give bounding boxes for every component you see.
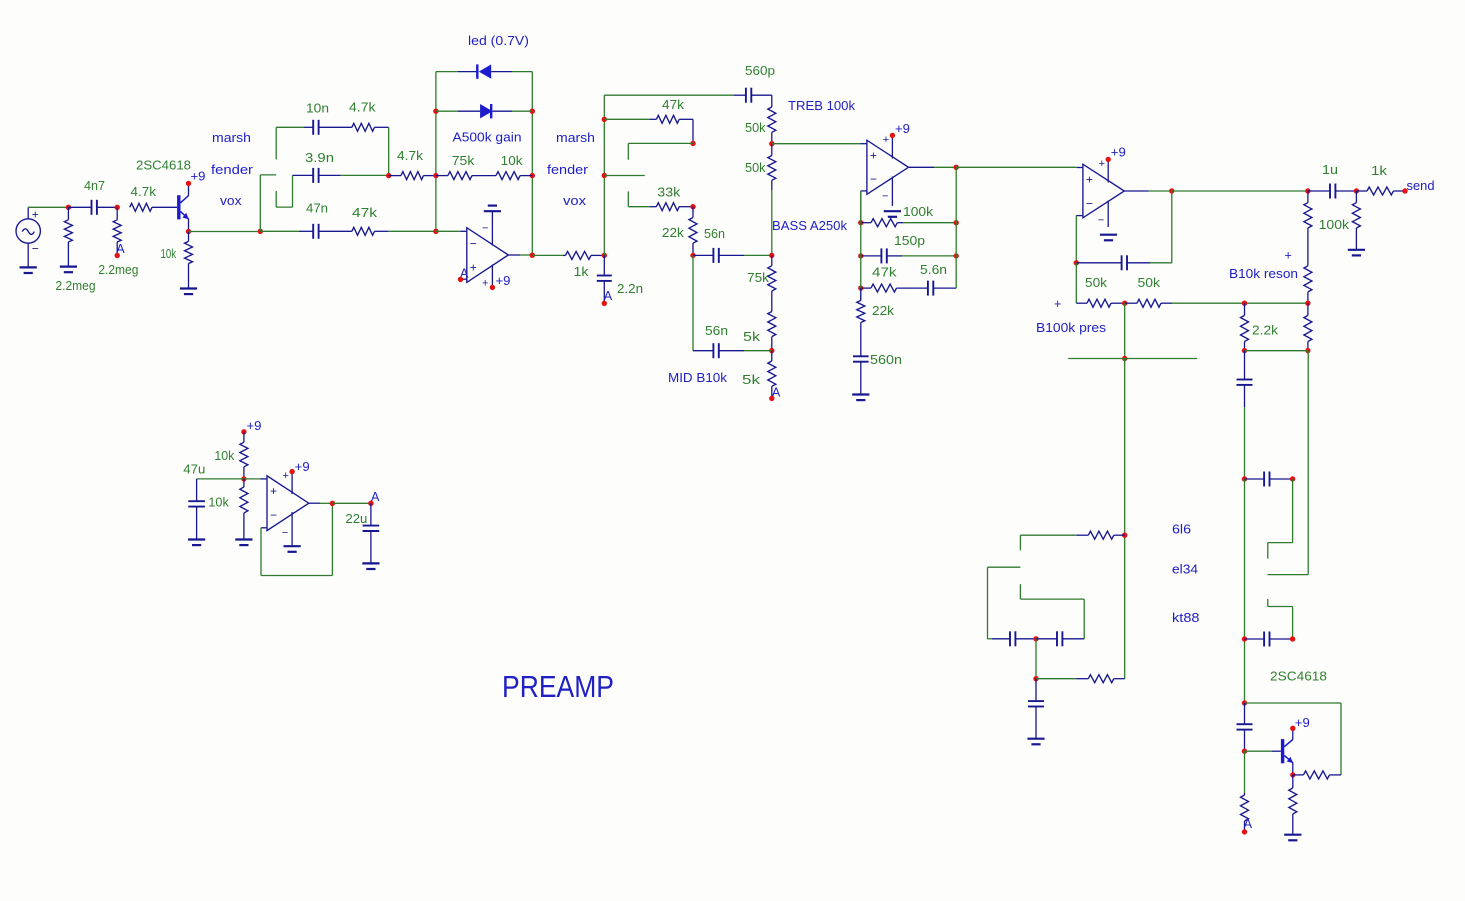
svg-text:el34: el34 xyxy=(1172,563,1198,577)
node (pot row right) xyxy=(530,173,535,178)
svg-text:47k: 47k xyxy=(872,266,897,280)
ground (input shunt) xyxy=(60,267,77,273)
diode D1 (led, cathode left) xyxy=(436,64,532,78)
svg-text:MID B10k: MID B10k xyxy=(668,371,728,385)
capacitor 5.6n xyxy=(897,281,957,296)
capacitor 1u xyxy=(1308,184,1357,199)
node A (grid leak bottom) xyxy=(115,242,126,258)
label 100k (U2 feedback) xyxy=(903,205,934,219)
wire (trunk top to 560p) xyxy=(604,94,734,96)
wire (sel-2 6l6 contact) xyxy=(1268,479,1293,559)
node A (below 2.2n) xyxy=(602,289,613,306)
ground (sel-1) xyxy=(1027,739,1044,745)
node (Q1 emitter) xyxy=(186,229,191,234)
capacitor 560p xyxy=(734,88,772,103)
resistor 4.7k (marsh) xyxy=(352,123,389,131)
wire (bias node row) xyxy=(197,478,267,480)
node (2.2k bottom) xyxy=(1242,348,1247,353)
svg-text:+: + xyxy=(1086,173,1093,187)
capacitor (U3 feedback) xyxy=(1076,255,1150,270)
label 47n xyxy=(306,202,328,216)
svg-text:47n: 47n xyxy=(306,202,328,216)
svg-text:5k: 5k xyxy=(743,330,761,344)
wire (to U1 inverting input) xyxy=(436,230,467,232)
wire (U1 out to 1k) xyxy=(532,254,563,256)
label 47k (vox row) xyxy=(352,206,378,220)
label 10k (Q1 emitter) xyxy=(161,247,177,261)
wire (100k to reson pot) xyxy=(1307,228,1309,266)
wire (switch-2 marsh arm) xyxy=(628,143,693,159)
resistor 4.7k (base) xyxy=(130,203,177,211)
wire (U1 output) xyxy=(508,254,532,256)
svg-text:B10k reson: B10k reson xyxy=(1229,267,1298,281)
transistor Q1 2SC4618 xyxy=(177,183,189,231)
node (marsh/vox junction) xyxy=(386,173,391,178)
svg-text:+9: +9 xyxy=(1111,146,1126,160)
label 5k (bass pot lower) xyxy=(743,330,761,344)
label B100k pres xyxy=(1036,321,1106,335)
label 3.9n xyxy=(305,151,334,165)
svg-text:560p: 560p xyxy=(745,64,775,78)
node (marsh arm) xyxy=(690,141,695,146)
svg-text:47k: 47k xyxy=(352,206,378,220)
node A (U1 noninv input) xyxy=(458,267,469,283)
op-amp U1 (gain) xyxy=(467,211,509,289)
wire (U4 feedback up) xyxy=(331,503,333,575)
node (fb node 3) xyxy=(858,285,863,290)
svg-text:5k: 5k xyxy=(742,373,761,387)
wire (U2 fb left rail) xyxy=(860,191,862,301)
label 47k (U2 input leg) xyxy=(872,266,897,280)
svg-text:+9: +9 xyxy=(191,170,206,184)
svg-text:B100k pres: B100k pres xyxy=(1036,321,1106,335)
wire (47k down to marsh arm) xyxy=(692,119,694,143)
resistor 50k (treb upper) xyxy=(768,107,776,144)
node (grid node) xyxy=(115,205,120,210)
power +9 (U3) xyxy=(1106,146,1126,163)
svg-text:+: + xyxy=(870,149,877,163)
label 50k (pres right) xyxy=(1138,276,1161,290)
resistor 47k (marsh 2) xyxy=(604,115,693,123)
node (U4 fb) xyxy=(330,501,335,506)
wire (down to cap selector) xyxy=(1244,407,1246,479)
label 47k (marsh 2) xyxy=(662,98,685,112)
node (trunk/fender junction) xyxy=(602,173,607,178)
wire (U4 out to A) xyxy=(332,502,371,504)
resistor 100k (U3 load) xyxy=(1304,191,1312,228)
capacitor (sel-1 right) xyxy=(1036,631,1084,646)
wire (U3 fb right) xyxy=(1150,191,1172,263)
label 4.7k (marsh) xyxy=(349,101,376,115)
label 10k (bias lower) xyxy=(208,496,229,510)
ground (U3 negative rail) xyxy=(1100,235,1117,241)
label marsh (switch 1) xyxy=(212,131,251,145)
ground (U2 negative rail) xyxy=(884,211,901,217)
wire (U4 output) xyxy=(309,502,333,504)
node (fb right 1) xyxy=(954,220,959,225)
label kt88 xyxy=(1172,611,1200,625)
svg-text:3.9n: 3.9n xyxy=(305,151,334,165)
svg-text:+9: +9 xyxy=(895,122,910,136)
capacitor (below 2.2k) xyxy=(1237,351,1253,407)
wire (emitter to switch trunk) xyxy=(189,231,261,233)
label MID B10k xyxy=(668,371,728,385)
svg-text:led (0.7V): led (0.7V) xyxy=(468,34,529,48)
power +9 (U4) xyxy=(289,460,309,474)
ground (source) xyxy=(20,267,37,273)
wire (bass pot middle) xyxy=(771,291,773,312)
svg-text:kt88: kt88 xyxy=(1172,611,1200,625)
capacitor 47n xyxy=(299,224,352,239)
label BASS A250k xyxy=(772,219,848,233)
svg-text:22k: 22k xyxy=(872,304,895,318)
svg-text:marsh: marsh xyxy=(212,131,251,145)
node (reson bottom) xyxy=(1305,348,1310,353)
capacitor 2.2n xyxy=(597,255,612,301)
resistor 2.2k xyxy=(1241,303,1249,350)
wire (to Q2 base) xyxy=(1245,750,1281,752)
node (Q2 top) xyxy=(1242,700,1247,705)
ground (560n) xyxy=(852,395,869,401)
label 10n xyxy=(306,102,329,116)
ground (send shunt) xyxy=(1348,250,1365,256)
svg-text:+: + xyxy=(270,484,277,498)
svg-text:A: A xyxy=(1244,817,1253,831)
node (mid row right) xyxy=(769,348,774,353)
wire (switch-1 fender arm) xyxy=(260,174,276,176)
label fender (switch 2) xyxy=(547,163,588,177)
resistor 10k (bias upper) xyxy=(240,432,248,479)
svg-text:+: + xyxy=(1285,249,1292,263)
label 50k (treb lower) xyxy=(745,161,766,175)
label 2.2k xyxy=(1252,324,1279,338)
label 150p xyxy=(894,234,925,248)
label TREB 100k xyxy=(788,99,856,113)
ground (U4 negative rail) xyxy=(284,546,301,552)
label 2.2meg (grid leak) xyxy=(98,263,138,277)
svg-text:50k: 50k xyxy=(745,161,766,175)
svg-text:+: + xyxy=(1099,158,1105,170)
svg-text:100k: 100k xyxy=(1319,218,1350,232)
resistor (Q2 emitter) xyxy=(1289,775,1297,835)
node (33k/22k junction) xyxy=(690,204,695,209)
wire (switch-2 fender arm) xyxy=(604,175,645,177)
svg-text:+: + xyxy=(883,134,889,146)
wire (sel-1 kt88 contact) xyxy=(1020,584,1084,639)
node (treb wiper) xyxy=(769,141,774,146)
svg-text:TREB 100k: TREB 100k xyxy=(788,99,856,113)
node (Q2 base node) xyxy=(1242,749,1247,754)
label 6l6 xyxy=(1172,523,1191,537)
node (switch-2 trunk bottom) xyxy=(602,253,607,258)
label 50k (treb upper) xyxy=(745,121,766,135)
label 560n xyxy=(870,353,902,367)
label 22k (to 560n) xyxy=(872,304,895,318)
label 10k (gain pot) xyxy=(501,154,524,168)
svg-text:A500k gain: A500k gain xyxy=(453,131,522,145)
label 22k (stage 2) xyxy=(662,226,685,240)
label 2.2n xyxy=(617,282,643,296)
transistor Q2 2SC4618 xyxy=(1281,728,1293,775)
node (fb node 2) xyxy=(858,253,863,258)
svg-text:50k: 50k xyxy=(745,121,766,135)
svg-text:A: A xyxy=(371,490,380,504)
label 5k (mid pot) xyxy=(742,373,761,387)
svg-text:vox: vox xyxy=(563,194,587,208)
svg-text:+9: +9 xyxy=(295,460,310,474)
svg-text:−: − xyxy=(270,508,277,522)
node (sel-1 bottom) xyxy=(1033,676,1038,681)
resistor 5k (bass pot lower) xyxy=(768,312,776,351)
label 10k (bias upper) xyxy=(214,449,235,463)
svg-text:10k: 10k xyxy=(501,154,524,168)
wire (U3 out to send row) xyxy=(1172,190,1308,192)
wire (sel-2 kt88 contact) xyxy=(1268,599,1293,639)
node (bass row left) xyxy=(690,253,695,258)
power +9 (bias divider) xyxy=(241,419,261,434)
label 5.6n xyxy=(920,263,947,277)
node (Q2 emitter) xyxy=(1290,772,1295,777)
svg-text:50k: 50k xyxy=(1085,276,1108,290)
node (sel-1 mid) xyxy=(1033,636,1038,641)
op-amp U3 xyxy=(1083,158,1124,227)
svg-text:2.2k: 2.2k xyxy=(1252,324,1279,338)
diode D2 (led, anode left) xyxy=(436,104,532,118)
ground (47u) xyxy=(188,540,205,546)
svg-text:10k: 10k xyxy=(208,496,229,510)
svg-text:fender: fender xyxy=(547,163,588,177)
wire (sel-1 6l6 contact) xyxy=(1020,535,1076,550)
wire (560p to treb pot) xyxy=(771,95,773,107)
node (bias divider mid) xyxy=(241,476,246,481)
wire (fb row 2 right) xyxy=(902,255,956,257)
label 1k (send) xyxy=(1371,164,1388,178)
svg-text:−: − xyxy=(282,527,288,539)
wire (50k row to reson) xyxy=(1172,302,1308,304)
svg-text:2.2n: 2.2n xyxy=(617,282,643,296)
node (switch-1 trunk bottom) xyxy=(258,229,263,234)
svg-text:1k: 1k xyxy=(574,265,590,279)
capacitor (sel-1 shunt) xyxy=(1028,679,1044,739)
node (op-amp U1 inv input) xyxy=(433,229,438,234)
capacitor 56n (mid) xyxy=(693,343,744,358)
wire (U3 output) xyxy=(1124,190,1172,192)
node (crossing) xyxy=(1122,356,1127,361)
capacitor 56n (bass) xyxy=(693,248,744,263)
resistor (Q2 feedback) xyxy=(1293,771,1341,779)
label B10k reson xyxy=(1229,267,1298,281)
ground (Q1 emitter) xyxy=(180,289,197,295)
voltage source V1 (sine) xyxy=(16,207,40,267)
resistor (sel-1 top row) xyxy=(1076,531,1125,539)
power +9 (U1) xyxy=(490,274,511,290)
wire (pres tap down 2) xyxy=(1124,359,1126,679)
resistor 10k (gain pot lower) xyxy=(496,172,532,180)
capacitor 22u xyxy=(363,503,380,563)
svg-text:fender: fender xyxy=(211,163,253,177)
svg-text:2.2meg: 2.2meg xyxy=(98,263,138,277)
svg-text:6l6: 6l6 xyxy=(1172,523,1191,537)
svg-text:BASS A250k: BASS A250k xyxy=(772,219,848,233)
node (reson wiper) xyxy=(1305,301,1310,306)
node (U3 output) xyxy=(1169,188,1174,193)
svg-text:22u: 22u xyxy=(345,512,367,526)
node (fb right 2) xyxy=(954,253,959,258)
resistor 50k (pres left) xyxy=(1076,299,1124,307)
ground (22u) xyxy=(362,563,379,569)
node (U3 fb node) xyxy=(1074,260,1079,265)
resistor 2.2meg (input shunt) xyxy=(64,207,72,266)
resistor 4.7k (series) xyxy=(389,172,436,180)
wire (3.9n to junction) xyxy=(341,174,389,176)
capacitor (Q2 input) xyxy=(1237,703,1253,751)
wire (56n to bass node) xyxy=(744,254,772,256)
capacitor 47u xyxy=(188,479,205,540)
label + (pres) xyxy=(1054,297,1061,311)
svg-text:75k: 75k xyxy=(747,271,770,285)
resistor 22k (to 560n) xyxy=(857,301,865,357)
ground (bias lower) xyxy=(235,540,252,546)
resistor 75k (gain pot upper) xyxy=(436,172,472,180)
svg-text:5.6n: 5.6n xyxy=(920,263,947,277)
label A500k gain xyxy=(453,131,522,145)
svg-text:marsh: marsh xyxy=(556,131,595,145)
svg-text:50k: 50k xyxy=(1138,276,1161,290)
resistor 1k (send) xyxy=(1356,187,1405,195)
svg-text:4.7k: 4.7k xyxy=(397,149,424,163)
ground (U1 positive rail, inverted) xyxy=(484,206,501,212)
label 33k (vox 2) xyxy=(657,186,681,200)
resistor 50k (treb lower) xyxy=(768,144,776,190)
node (pot row left) xyxy=(433,173,438,178)
title PREAMP xyxy=(502,669,614,704)
svg-text:−: − xyxy=(482,223,488,235)
svg-text:47u: 47u xyxy=(183,462,205,476)
svg-text:+9: +9 xyxy=(496,274,511,288)
wire (56n mid to node) xyxy=(744,350,772,352)
svg-text:+: + xyxy=(1054,297,1061,311)
wire (47n row left) xyxy=(260,230,299,232)
svg-text:2SC4618: 2SC4618 xyxy=(136,159,191,173)
node (diode row left) xyxy=(433,109,438,114)
wire (U2 fb right rail) xyxy=(955,167,957,288)
node (2.2k top) xyxy=(1242,301,1247,306)
resistor (Q2 base bias) xyxy=(1241,751,1249,830)
wire (switch-2 vox contact) xyxy=(628,191,650,206)
wire (reson rail down) xyxy=(1307,351,1309,575)
wire (U3 fb to 50k row) xyxy=(1075,263,1077,303)
wire (switch-1 vox contact) xyxy=(276,175,292,207)
ground (Q2 emitter) xyxy=(1284,835,1301,841)
node (trunk/47k junction) xyxy=(602,117,607,122)
wire (switch-1 marsh contact) xyxy=(276,127,304,159)
label 1k (stage output) xyxy=(574,265,590,279)
capacitor (sel-1 left) xyxy=(988,631,1037,646)
node (sel-1 top) xyxy=(1122,533,1127,538)
wire (treb to bass node) xyxy=(771,190,773,255)
label 50k (pres left) xyxy=(1085,276,1108,290)
node (U1 output) xyxy=(530,253,535,258)
wire (switch-1 trunk) xyxy=(259,175,261,231)
wire (U4 inv stub) xyxy=(261,528,267,576)
svg-text:4.7k: 4.7k xyxy=(131,185,157,199)
resistor 1k (stage output) xyxy=(563,251,604,259)
resistor (sel-1 bottom row) xyxy=(1036,675,1125,683)
resistor 100k (U2 feedback) xyxy=(861,219,903,227)
label 56n (mid) xyxy=(705,324,728,338)
svg-text:2.2meg: 2.2meg xyxy=(56,279,96,293)
svg-text:4.7k: 4.7k xyxy=(349,101,376,115)
node (diode row right) xyxy=(530,109,535,114)
node (bass node) xyxy=(769,253,774,258)
wire (Q2 collector loop) xyxy=(1245,703,1342,775)
svg-text:vox: vox xyxy=(220,194,242,208)
svg-text:+: + xyxy=(470,260,477,274)
node (pres wiper) xyxy=(1122,301,1127,306)
label 1u xyxy=(1322,163,1338,177)
resistor 75k (bass pot) xyxy=(768,255,776,291)
svg-text:−: − xyxy=(32,242,39,256)
wire (2.2k to reson bottom) xyxy=(1245,350,1308,352)
svg-text:2SC4618: 2SC4618 xyxy=(1270,670,1327,684)
label 4n7 xyxy=(84,179,105,193)
svg-text:100k: 100k xyxy=(903,205,934,219)
wire (gain pot right rail) xyxy=(531,72,533,256)
wire (U3 inv stub) xyxy=(1076,216,1083,263)
resistor 22k (stage 2) xyxy=(689,207,697,256)
resistor (reson pot lower) xyxy=(1304,303,1312,350)
label 2.2meg (input shunt) xyxy=(56,279,96,293)
node (send row mid) xyxy=(1354,188,1359,193)
wire (marsh row down) xyxy=(388,127,390,175)
wire (47n row right) xyxy=(389,230,436,232)
label + (reson) xyxy=(1285,249,1292,263)
wire (switch-2 trunk) xyxy=(603,95,605,255)
resistor 2.2meg (grid leak) xyxy=(113,207,121,253)
resistor 50k (pres right) xyxy=(1125,299,1172,307)
svg-text:−: − xyxy=(882,191,888,203)
capacitor 150p (U2 feedback) xyxy=(861,248,902,263)
label 560p xyxy=(745,64,775,78)
svg-text:33k: 33k xyxy=(657,186,681,200)
svg-text:10n: 10n xyxy=(306,102,329,116)
svg-text:1u: 1u xyxy=(1322,163,1338,177)
wire (pot wiper segment) xyxy=(472,175,496,177)
svg-text:PREAMP: PREAMP xyxy=(502,669,614,704)
resistor 33k (vox 2) xyxy=(650,203,693,211)
node (sel-2 top right) xyxy=(1290,476,1295,481)
label vox (switch 2) xyxy=(563,194,587,208)
wire (pres tap down) xyxy=(1124,303,1126,358)
label 100k (output) xyxy=(1319,218,1350,232)
svg-text:150p: 150p xyxy=(894,234,925,248)
svg-text:1k: 1k xyxy=(1371,164,1388,178)
node (fb node 1) xyxy=(858,220,863,225)
svg-text:+9: +9 xyxy=(247,419,262,433)
resistor 10k (Q1 emitter) xyxy=(185,232,193,289)
svg-text:4n7: 4n7 xyxy=(84,179,105,193)
svg-text:−: − xyxy=(870,172,877,186)
wire (gain pot left rail) xyxy=(435,72,437,232)
wire (fb row 1 right) xyxy=(903,222,956,224)
wire (source to input node) xyxy=(28,206,68,208)
svg-text:75k: 75k xyxy=(452,154,475,168)
node (sel-2 top left) xyxy=(1242,476,1247,481)
label vox (switch 1) xyxy=(220,194,242,208)
svg-text:560n: 560n xyxy=(870,353,902,367)
svg-text:56n: 56n xyxy=(705,324,728,338)
capacitor 10n xyxy=(304,120,352,135)
